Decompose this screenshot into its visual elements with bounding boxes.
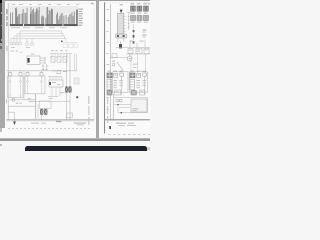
riser to band 2: [137, 54, 139, 73]
ECU box 2 outline: [25, 76, 45, 94]
toolbar tick 3: [1, 39, 3, 41]
pin header 1a: [9, 73, 12, 76]
ground arrow: [13, 122, 16, 126]
inner stub 2b: [41, 76, 43, 80]
next-page dashed line right: [108, 134, 150, 135]
left margin brace: [6, 99, 8, 104]
fuse F3: [144, 6, 146, 11]
pin stub 1: [40, 57, 44, 59]
frame bottom border 1: [105, 119, 150, 121]
lower wire 3 partial: [118, 107, 130, 109]
ECU box 1 outline: [8, 76, 23, 98]
strip caption text: [11, 27, 20, 28]
pin circle 3: [44, 62, 46, 64]
schematic frame right border: [93, 3, 95, 121]
feed drop 5: [61, 77, 63, 80]
page top dashed border: [105, 1, 150, 3]
left margin tail smudge: [0, 128, 2, 132]
ECU1 internal wire a: [9, 83, 11, 98]
left page (page 1, white): [5, 1, 96, 128]
junction block 2: [136, 48, 142, 53]
base terminals: [117, 35, 119, 37]
header stub 2a: [27, 71, 29, 73]
feed drop 1: [49, 77, 51, 80]
relay coil solid: [28, 58, 30, 63]
elbow down: [8, 106, 14, 121]
bus junction dot: [61, 41, 63, 43]
small marker below toolbar: [0, 46, 2, 49]
inline comp b: [119, 100, 122, 102]
ECU1 bottom pin a: [9, 94, 11, 98]
rail tick 1: [106, 20, 109, 21]
page number top-right: [91, 3, 94, 4]
branch label: [28, 98, 31, 99]
output wire bottom: [8, 105, 35, 107]
resistor ladder label: [127, 12, 130, 13]
inner stub 2a: [27, 76, 29, 80]
group A caption row: [108, 71, 111, 72]
footnote mark near rail: [109, 126, 111, 129]
footer text right: [74, 122, 86, 123]
fuse grid caption row: [131, 3, 134, 4]
lower trunk vertical: [113, 94, 115, 121]
junction block 3: [144, 48, 149, 53]
ladder ticks: [128, 17, 130, 28]
branch vertical: [37, 104, 39, 119]
toolbar tick 2: [1, 25, 3, 27]
component box B: [31, 43, 33, 45]
harness text: [133, 64, 138, 65]
fuse row2 labels: [131, 22, 135, 23]
pin stub 3: [40, 62, 44, 64]
riser to band 3: [145, 54, 147, 73]
drop wire 2: [46, 64, 48, 70]
ignition row labels: [51, 50, 54, 51]
footer text row 2: [118, 125, 125, 126]
resistor ladder line: [128, 14, 130, 30]
lower wire 1: [114, 97, 148, 99]
ignition feed line: [50, 53, 72, 55]
group B bottom connector: [131, 90, 136, 95]
supply wire B+: [120, 42, 122, 48]
group A connector 3: [120, 73, 124, 76]
lower link wire b: [31, 100, 71, 102]
base stub wires: [117, 38, 119, 42]
pin header 2a: [26, 73, 29, 76]
feed drop 3: [55, 77, 57, 80]
left margin rotated text: [6, 9, 7, 15]
left toolbar dark strip: [0, 0, 2, 43]
lower wire 4: [118, 112, 148, 114]
terminal box 4: [19, 43, 21, 45]
group A text stack 2: [113, 80, 117, 81]
pin circle 1: [44, 57, 46, 59]
drop wire from B connector 3: [144, 76, 146, 94]
trunk wire vertical: [35, 94, 37, 119]
group B connector 2: [137, 73, 141, 77]
horizontal bus upper: [116, 46, 150, 48]
battery base box: [116, 34, 127, 38]
right bus tail wire: [62, 41, 77, 43]
module drops below: [51, 87, 53, 97]
group A bottom connector: [107, 90, 112, 95]
ECU inner text: [132, 108, 138, 109]
frame left border: [104, 2, 106, 133]
module A enclosure: [113, 72, 128, 92]
component stub A: [26, 39, 28, 43]
rail tick 3: [106, 64, 109, 65]
right pair wire 1: [74, 54, 76, 71]
long bus wire across page: [7, 70, 78, 72]
rail tick 2: [106, 42, 109, 43]
gray stub right of dock: [147, 147, 151, 150]
group B caption row: [131, 71, 134, 72]
X connector pin left: [65, 87, 68, 93]
pair wire down 2: [69, 54, 71, 87]
legend text column: [78, 8, 83, 11]
dark dock bar: [25, 146, 147, 151]
junction block 1: [128, 49, 133, 54]
relay K1 label rows: [143, 30, 147, 31]
fuse F6: [144, 16, 149, 21]
terminal box 3: [16, 43, 18, 45]
junction dark dots: [117, 104, 118, 105]
coil circle 1a: [9, 81, 11, 83]
junction module dark tab: [49, 82, 51, 85]
inline comp a: [116, 100, 119, 102]
group A bottom box: [115, 90, 121, 95]
connector stack on feed wire: [133, 30, 135, 32]
fuse box 3: [63, 56, 67, 62]
coil circle 2b: [41, 81, 43, 83]
connector shell outline: [40, 101, 52, 109]
drop v5: [63, 54, 65, 57]
horizontal bus lower: [126, 53, 150, 55]
splice mark 1: [42, 69, 44, 71]
small box left of bus: [112, 54, 117, 58]
sensor marks: [112, 61, 115, 62]
motor circle M1: [127, 56, 132, 61]
fuse box 2: [57, 56, 61, 62]
drop v6: [66, 54, 68, 57]
inner stub 1b: [20, 76, 22, 80]
hatched connector pin 1: [40, 109, 43, 115]
tail wires below X pins: [66, 93, 68, 120]
next-page dashed line left 2: [10, 131, 58, 134]
ECU2 internal wire a: [27, 83, 29, 94]
junction module text: [52, 82, 56, 83]
page top dashed border: [8, 2, 90, 4]
group B bottom box: [139, 90, 145, 95]
header stub 1b: [20, 71, 22, 73]
inner rail line: [109, 4, 111, 121]
drop v3: [57, 54, 59, 57]
frame bottom border 2: [105, 120, 150, 122]
drop wire 1: [42, 64, 44, 70]
component stub B: [31, 39, 33, 43]
connector strip box background: [10, 6, 79, 26]
top window edge line: [0, 0, 150, 1]
footer ref number: [56, 121, 61, 123]
next-page dashed line left: [8, 128, 92, 129]
drop v2: [54, 54, 56, 57]
pin wire down: [41, 115, 43, 120]
inline fuse dark: [119, 44, 122, 48]
frame bottom border line 1: [7, 119, 95, 121]
small box above border right: [67, 113, 72, 118]
label row above feed: [52, 70, 56, 71]
left margin gray column: [0, 0, 5, 128]
pair wire down 1: [66, 54, 68, 87]
header stub 2b: [41, 71, 43, 73]
coil circle 2a: [27, 81, 29, 83]
toolbar tick 1: [1, 12, 3, 14]
group B connector 3: [143, 73, 147, 76]
group B connector 1: [130, 73, 135, 78]
small text mid: [60, 92, 64, 93]
drop wires to bus: [129, 40, 131, 48]
component box A: [26, 43, 28, 45]
pin circle 2: [44, 60, 46, 62]
branch labels: [130, 41, 134, 42]
group A connector 2: [114, 73, 118, 77]
bus wire 3: [14, 36, 65, 42]
battery body: [118, 13, 124, 34]
group B text stack 2: [136, 80, 140, 81]
motor stub: [129, 54, 131, 56]
lower wire 2: [114, 104, 148, 106]
group B text stack 3: [142, 80, 146, 81]
battery plates: [118, 16, 123, 31]
group B pin table: [130, 79, 135, 89]
header stub 1a: [9, 71, 11, 73]
diagonal harness wire: [117, 62, 123, 70]
feed wire from fuses: [133, 24, 135, 40]
group A text stack 3: [119, 80, 123, 81]
group A pin table: [107, 79, 112, 89]
drop wire from connector 3: [121, 76, 123, 94]
fuse F2: [137, 6, 139, 11]
battery label: [120, 4, 123, 5]
relay K2 label rows: [143, 35, 147, 36]
scrollbar band upper: [0, 138, 150, 139]
feed drop 4: [58, 77, 60, 80]
coil circle 1b: [20, 81, 22, 83]
feed line mid: [48, 76, 62, 78]
corner riser: [117, 108, 119, 113]
inner stub 1a: [9, 76, 11, 80]
rail extra ticks: [106, 8, 108, 11]
drop v1: [51, 54, 53, 57]
note box right margin: [74, 78, 79, 84]
feed drop 2: [52, 77, 54, 80]
right pair wire 2: [76, 54, 78, 71]
ECU box right: [131, 99, 147, 112]
drop labels: [42, 65, 44, 68]
fuse F1: [131, 6, 133, 11]
junction module box: [49, 80, 63, 87]
battery side pins: [124, 17, 126, 32]
scrollbar band lower: [0, 139, 150, 140]
small module box a: [57, 70, 60, 74]
riser to band 1: [130, 54, 132, 73]
module B enclosure: [129, 72, 147, 92]
connector strip bars: [9, 13, 12, 25]
label under terminals: [11, 46, 15, 49]
bus wire 2: [17, 34, 63, 43]
rotated margin note: [107, 97, 108, 104]
fuse F4: [131, 16, 136, 21]
footer text center: [31, 123, 39, 124]
small mark left bottom: [0, 144, 2, 146]
fuse F5: [137, 16, 142, 21]
battery arrow: [120, 10, 123, 14]
drop v4: [60, 54, 62, 57]
wire gauge label: [16, 103, 18, 104]
header text ticks: [12, 3, 15, 6]
hatched connector pin 2: [44, 109, 47, 115]
inline component on wire: [12, 99, 15, 101]
relay label: [31, 54, 34, 55]
fuse row1 labels: [131, 13, 135, 14]
toolbar black cap: [0, 0, 2, 3]
bus wire 1: [20, 31, 62, 42]
right page (page 2, white): [99, 1, 150, 134]
feed to pump line: [110, 57, 127, 59]
schematic frame left border: [7, 3, 9, 120]
pin header 2b: [40, 73, 43, 76]
group A connector 1: [107, 73, 112, 78]
frame bottom border line 2: [7, 120, 95, 122]
relay box U1: [27, 56, 40, 64]
gutter gray column: [96, 0, 100, 138]
footer text row 1: [116, 123, 126, 124]
ECU1 internal wire b: [20, 83, 22, 98]
mid-left labels: [11, 51, 14, 52]
connector strip baseline band: [10, 24, 78, 26]
base white canvas: [0, 0, 150, 150]
output wire top: [10, 99, 35, 101]
ECU1 bottom pin b: [20, 94, 22, 98]
ECU2 internal wire b: [41, 83, 43, 94]
lower link wire a: [48, 96, 58, 98]
splice mark 2: [45, 69, 47, 71]
pin header 1b: [19, 73, 22, 76]
pin stub 2: [40, 60, 44, 62]
dark dot right margin: [76, 96, 78, 98]
bus wire 4: [11, 39, 66, 43]
right riser: [147, 98, 149, 113]
rotated side note: [88, 96, 89, 104]
fuse box 1: [51, 56, 55, 62]
white strip below band: [0, 141, 150, 150]
wire between ECU boxes: [23, 71, 25, 100]
terminal box 1: [10, 43, 12, 45]
tail connector row: [63, 44, 68, 48]
X connector pin right: [68, 87, 71, 93]
terminal box 2: [13, 43, 15, 45]
